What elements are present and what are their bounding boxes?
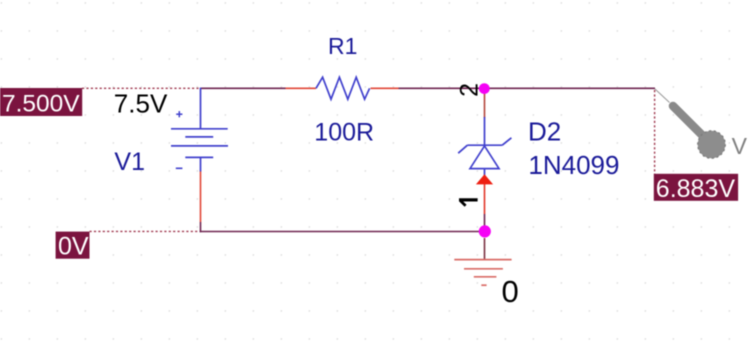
svg-text:7.5V: 7.5V [114,88,168,118]
svg-text:0: 0 [502,274,519,309]
svg-text:6.883V: 6.883V [656,175,736,203]
svg-text:V1: V1 [114,148,145,176]
svg-text:0V: 0V [58,233,89,261]
svg-text:100R: 100R [314,118,374,146]
svg-text:D2: D2 [528,117,561,147]
svg-text:1N4099: 1N4099 [528,150,619,180]
svg-text:2: 2 [455,83,483,97]
svg-text:V: V [732,133,748,159]
svg-text:7.500V: 7.500V [2,91,80,118]
svg-text:R1: R1 [328,33,357,59]
